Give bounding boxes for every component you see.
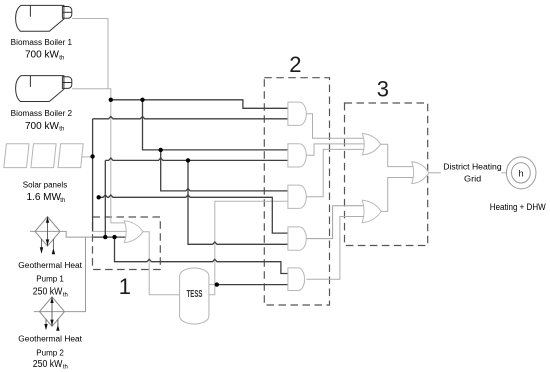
wire solar connector [82,156,93,158]
AND gate A5 [288,268,305,291]
junction TESS output [215,282,219,286]
wire boiler1 output [72,19,108,89]
wire TESS riser to AND3 [209,201,288,294]
wire dark boilers branch to AND1 in1 [111,100,288,109]
wire ORA out [381,144,414,166]
svg-text:Geothermal Heat: Geothermal Heat [18,335,83,344]
svg-text:Pump 2: Pump 2 [36,348,64,357]
wire dark solar vertical [92,119,94,232]
svg-text:1: 1 [119,274,131,299]
AND gate A4 [288,227,306,250]
AND gate A3 [288,185,306,208]
dashed box 3 [345,103,428,246]
svg-text:th: th [59,127,64,133]
svg-text:Grid: Grid [464,174,482,184]
wire dark x114.5 vertical to AND5 in1 [115,237,289,273]
wire grid to circle [502,172,507,174]
svg-text:Pump 1: Pump 1 [36,275,64,284]
OR gate U1 in box 1 [124,221,143,243]
svg-text:Heating + DHW: Heating + DHW [490,202,546,212]
wire ORB out [381,178,414,212]
svg-text:th: th [60,198,65,204]
wire HP2 output riser [64,238,85,312]
geothermal heat pump 1 icon [30,217,60,255]
junction AND4 feed line [97,195,101,199]
wire OR1 output to TESS [143,232,180,295]
wire TESS right stub [209,284,217,286]
wire solar to OR1 middle [93,230,129,232]
svg-text:th: th [63,292,68,298]
wire dark x105.3 vertical [104,160,106,237]
wire dark AND1 in2 [93,116,288,118]
biomass boiler 2 icon [16,76,72,102]
junction HP mix left [103,235,107,239]
node h circle [506,157,536,189]
svg-text:700 kW: 700 kW [25,121,59,132]
svg-text:250 kW: 250 kW [33,359,63,370]
AND gate A1 [288,102,306,125]
wire dark x160.7 vertical to AND3 in1 [161,150,288,191]
wire dark y197 to AND4 in1 [99,195,288,233]
junction boiler branch [140,98,144,102]
svg-text:h: h [518,169,523,180]
svg-text:Solar panels: Solar panels [23,181,67,190]
wire boiler2 output riser [72,89,128,223]
svg-text:th: th [59,56,64,62]
svg-text:3: 3 [377,77,389,102]
svg-text:Geothermal Heat: Geothermal Heat [18,261,83,270]
svg-text:2: 2 [289,52,301,77]
junction AND2 feed [159,148,163,152]
svg-text:District Heating: District Heating [443,162,502,172]
svg-text:250 kW: 250 kW [33,287,63,298]
junction solar feed [90,154,94,158]
wire AND4 out to ORB [306,206,364,239]
junction AND2/AND4 branch [186,158,190,162]
wire dark HP mix to OR1 [93,236,127,238]
wire dark AND2 in2 [105,158,288,160]
wire AND3 out to ORA [306,149,365,196]
wire AND1 out to ORA [306,114,365,139]
dashed box 1 [93,217,161,270]
wire ORC out [429,172,441,174]
junction HP mix right [112,235,116,239]
wire dark x142.5 vertical to AND2 in1 [143,100,289,150]
svg-text:Biomass Boiler 1: Biomass Boiler 1 [11,38,73,47]
dashed box 2 [264,78,329,305]
solar panels icon [4,144,83,168]
junction boiler riser [109,98,113,102]
wire AND5 out to ORB [306,217,364,280]
wire dark x188 vertical to AND4 in2 [188,160,288,244]
wire HP1 output [60,231,93,237]
OR gate ORC [412,162,429,184]
svg-text:th: th [63,365,68,371]
TESS tank [180,268,209,324]
svg-text:1.6 MW: 1.6 MW [27,192,62,203]
svg-text:TESS: TESS [187,288,203,300]
AND gate A2 [288,144,306,167]
biomass boiler 1 icon [16,5,72,31]
OR gate ORB [362,200,381,223]
geothermal heat pump 2 icon [34,297,65,331]
OR gate ORA [362,134,380,155]
wire dark TESS to AND5 in2 [217,284,288,286]
svg-text:Biomass Boiler 2: Biomass Boiler 2 [11,109,73,118]
svg-text:700 kW: 700 kW [25,50,59,61]
wire AND2 out to ORA [306,144,365,155]
